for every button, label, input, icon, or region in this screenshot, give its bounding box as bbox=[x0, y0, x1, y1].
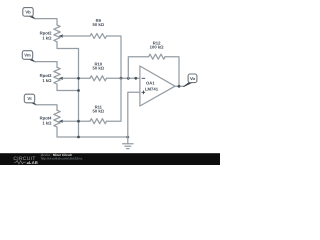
junction bus/Rpot3 bottom bbox=[77, 89, 80, 92]
wire Rpot2 wiper to R9 bbox=[63, 35, 91, 37]
svg-text:100 kΩ: 100 kΩ bbox=[150, 45, 164, 50]
wire Rpot4 bottom to ground rail bbox=[57, 127, 128, 137]
op-amp U1 bbox=[140, 66, 175, 106]
wire Rpot3 bottom to bus bbox=[57, 84, 79, 90]
potentiometer Rpot3 bbox=[40, 67, 63, 84]
resistor R10 bbox=[90, 62, 107, 81]
junction output bbox=[178, 85, 181, 88]
junction feedback bbox=[127, 77, 130, 80]
svg-text:50 kΩ: 50 kΩ bbox=[93, 66, 105, 71]
wire op-amp output bbox=[175, 85, 185, 87]
flag Vo bbox=[184, 74, 197, 87]
svg-text:LAB: LAB bbox=[29, 160, 38, 165]
bus wire bbox=[78, 49, 80, 138]
svg-text:Vo: Vo bbox=[190, 76, 195, 81]
wire Vm to Rpot3 top bbox=[35, 62, 57, 68]
svg-text:OA1: OA1 bbox=[146, 80, 155, 85]
resistor R9 bbox=[90, 18, 107, 38]
svg-text:http://circuitlab.com/c6uk53mc: http://circuitlab.com/c6uk53mc bbox=[41, 157, 83, 161]
wire R9 to summing node bbox=[107, 36, 122, 78]
feedback wire right bbox=[165, 57, 179, 87]
wire Rpot4 wiper to R11 bbox=[63, 120, 91, 122]
svg-text:LM741: LM741 bbox=[145, 87, 159, 92]
feedback wire left bbox=[128, 57, 148, 79]
wire R11 to summing node bbox=[107, 78, 122, 121]
flag Vm bbox=[22, 51, 35, 62]
wire Rpot3 wiper to R10 bbox=[63, 77, 91, 79]
svg-text:Vm: Vm bbox=[24, 53, 31, 58]
svg-text:1 kΩ: 1 kΩ bbox=[42, 36, 52, 41]
svg-text:1 kΩ: 1 kΩ bbox=[42, 78, 52, 83]
wire Vt to Rpot4 top bbox=[36, 105, 57, 110]
junction bus/ground rail bbox=[77, 136, 80, 139]
wire op-amp plus input to ground node bbox=[128, 92, 140, 137]
potentiometer Rpot2 bbox=[40, 25, 63, 42]
svg-text:Vt: Vt bbox=[27, 96, 32, 101]
resistor R11 bbox=[90, 105, 107, 124]
svg-text:Vb: Vb bbox=[25, 10, 31, 15]
potentiometer Rpot4 bbox=[40, 110, 63, 127]
svg-text:50 kΩ: 50 kΩ bbox=[93, 22, 105, 27]
junction bus/wiper3 bbox=[77, 120, 80, 123]
svg-text:1 kΩ: 1 kΩ bbox=[42, 121, 52, 126]
wire R10 to op-amp minus input bbox=[107, 77, 140, 79]
junction bus/wiper bbox=[77, 77, 80, 80]
ground bbox=[123, 137, 133, 149]
resistor R12 bbox=[149, 41, 166, 60]
wire Rpot2 bottom to bus bbox=[57, 42, 79, 49]
junction R9/R11 riser bbox=[120, 77, 123, 80]
footer bar bbox=[0, 153, 220, 165]
CircuitLab logo bbox=[13, 156, 38, 165]
wire Vb to Rpot2 top bbox=[35, 19, 57, 25]
junction ground node bbox=[126, 136, 129, 139]
flag Vt bbox=[24, 94, 36, 105]
svg-text:50 kΩ: 50 kΩ bbox=[93, 109, 105, 114]
flag Vb bbox=[23, 8, 35, 19]
node pin dot bbox=[134, 77, 137, 80]
